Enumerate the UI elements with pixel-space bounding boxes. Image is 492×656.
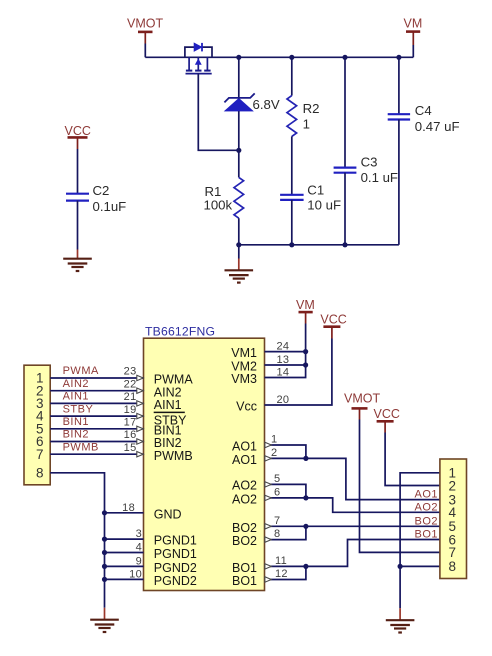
svg-text:C1: C1 <box>307 182 324 197</box>
svg-text:21: 21 <box>124 391 137 403</box>
svg-text:7: 7 <box>36 447 44 462</box>
wire gate to zener bottom node <box>198 74 239 151</box>
net VM terminal (above U1) <box>296 298 315 324</box>
pin arrows U1 right pins <box>265 442 271 582</box>
svg-text:1: 1 <box>303 116 310 131</box>
svg-text:0.47 uF: 0.47 uF <box>415 119 460 134</box>
svg-text:0.1uF: 0.1uF <box>93 199 127 214</box>
wire bottom rail <box>239 244 399 246</box>
svg-text:BO1: BO1 <box>232 574 257 588</box>
wire zener bottom <box>238 111 240 150</box>
wire GND J2 pin1 column <box>400 473 440 608</box>
svg-text:PGND2: PGND2 <box>154 561 197 575</box>
wire J1 pin6 to U1 pin16 (BIN2) <box>50 441 143 443</box>
wire GND column to U1 pin9 <box>105 565 144 567</box>
source/drain/body stubs <box>188 57 190 70</box>
svg-text:BIN1: BIN1 <box>63 416 89 428</box>
svg-text:BO2: BO2 <box>232 521 257 535</box>
capacitor C1 10 uF <box>280 195 304 200</box>
svg-text:10: 10 <box>129 568 142 580</box>
resistor R1 100k <box>234 177 244 218</box>
channel bars <box>186 70 192 72</box>
net VCC terminal (middle right) <box>374 407 400 432</box>
wire GND column to U1 pin18 <box>105 512 144 514</box>
svg-text:BIN2: BIN2 <box>63 429 89 441</box>
U1 left pin names <box>154 373 197 588</box>
svg-text:3: 3 <box>136 528 142 540</box>
resistor R2 1 <box>287 96 297 137</box>
svg-text:C2: C2 <box>93 183 110 198</box>
svg-text:4: 4 <box>449 505 457 520</box>
wire U1 pin7 (BO2) <box>265 525 306 527</box>
wire J1 pin3 to U1 pin21 (AIN1) <box>50 402 143 404</box>
svg-text:1: 1 <box>271 434 277 446</box>
svg-text:6.8V: 6.8V <box>253 97 280 112</box>
svg-text:VM: VM <box>404 17 423 31</box>
svg-text:100k: 100k <box>204 198 233 213</box>
svg-text:PWMB: PWMB <box>154 449 193 463</box>
capacitor C3 0.1 uF <box>334 168 357 173</box>
node zener/gate junction <box>236 148 241 153</box>
connector J2 (right header) <box>440 459 467 579</box>
wire VCC to J2 pin2 <box>385 433 440 486</box>
wire VCC to U1 pin20 <box>265 339 332 406</box>
wire J1 pin8 to GND column <box>50 473 104 608</box>
svg-text:AO1: AO1 <box>232 440 257 454</box>
wire VCC to C2 <box>77 149 79 194</box>
svg-text:VM1: VM1 <box>231 346 257 360</box>
svg-text:8: 8 <box>36 465 44 480</box>
wire U1 pin1 (AO1) <box>265 445 306 458</box>
node bottom rail junctions <box>236 242 241 247</box>
svg-text:12: 12 <box>275 568 288 580</box>
node GND column junctions <box>102 510 107 515</box>
net VMOT terminal (top left) <box>127 17 163 44</box>
svg-text:11: 11 <box>275 555 287 567</box>
transistor Q1 (P-MOSFET with body diode) <box>185 43 212 74</box>
svg-text:20: 20 <box>277 394 290 406</box>
svg-text:10 uF: 10 uF <box>307 198 341 213</box>
svg-text:BO1: BO1 <box>232 561 257 575</box>
node BO1 junction <box>303 564 308 569</box>
wire C1 to bottom rail <box>291 200 293 245</box>
svg-text:16: 16 <box>124 429 137 441</box>
wire rail to ground G2 <box>238 245 240 259</box>
svg-text:GND: GND <box>154 507 182 521</box>
body arrow <box>195 58 202 64</box>
svg-text:15: 15 <box>124 442 137 454</box>
svg-text:VMOT: VMOT <box>127 17 163 31</box>
svg-text:4: 4 <box>136 542 142 554</box>
wire U1 pin8 (BO2) <box>265 526 306 539</box>
svg-text:0.1 uF: 0.1 uF <box>361 170 398 185</box>
svg-text:R2: R2 <box>303 101 320 116</box>
net VMOT terminal (middle right) <box>344 391 380 419</box>
wire to ground G3 <box>104 608 106 620</box>
svg-text:5: 5 <box>274 473 280 485</box>
connector J1 (left header) <box>24 365 50 485</box>
svg-text:AO2: AO2 <box>232 493 257 507</box>
svg-text:PWMA: PWMA <box>63 365 99 377</box>
wire U1 pin24 (VM1) <box>265 351 306 353</box>
svg-text:AO2: AO2 <box>232 479 257 493</box>
svg-text:AO1: AO1 <box>414 489 438 501</box>
body diode loop <box>185 47 212 57</box>
svg-text:22: 22 <box>124 378 137 390</box>
svg-text:AIN1: AIN1 <box>154 398 182 412</box>
wire R2 to C1 <box>291 136 293 194</box>
svg-text:TB6612FNG: TB6612FNG <box>145 325 215 339</box>
U1 right pin names <box>231 346 257 588</box>
svg-text:7: 7 <box>274 515 280 527</box>
wire to ground G4 <box>399 608 401 620</box>
node VM junctions <box>303 349 308 354</box>
svg-text:2: 2 <box>449 478 457 493</box>
wire VM column down to U1 pin14 <box>265 324 306 378</box>
ground G3 <box>90 620 119 632</box>
wire C2 to ground G1 <box>77 201 79 250</box>
svg-text:AIN1: AIN1 <box>63 391 89 403</box>
svg-text:C4: C4 <box>415 103 432 118</box>
wire GND column to U1 pin10 <box>105 578 144 580</box>
svg-text:PWMB: PWMB <box>63 441 99 453</box>
wire top rail <box>145 56 413 58</box>
wire J2 pin8 <box>400 565 440 567</box>
svg-text:18: 18 <box>122 502 135 514</box>
wire J1 pin5 to U1 pin17 (BIN1) <box>50 428 143 430</box>
wire U1 pin11 (BO1) <box>265 565 306 567</box>
net VCC terminal (left) <box>65 124 91 149</box>
svg-text:AIN2: AIN2 <box>63 378 89 390</box>
node GND right junction <box>398 564 403 569</box>
svg-text:13: 13 <box>277 354 290 366</box>
svg-text:BO2: BO2 <box>232 534 257 548</box>
svg-text:C3: C3 <box>361 154 378 169</box>
wire U1 pin12 (BO1) <box>265 566 306 579</box>
svg-text:VM3: VM3 <box>231 372 257 386</box>
wire U1 pin13 (VM2) <box>265 364 306 366</box>
diode cathode bar <box>201 43 203 52</box>
wire J1 pin4 to U1 pin19 (STBY) <box>50 415 143 417</box>
svg-text:24: 24 <box>277 341 290 353</box>
gate line <box>186 73 212 75</box>
svg-text:19: 19 <box>124 404 137 416</box>
wire BO2 to J2 pin5 <box>306 525 440 527</box>
svg-text:23: 23 <box>124 366 137 378</box>
svg-text:STBY: STBY <box>63 403 94 415</box>
wire C3 to bottom rail <box>344 173 346 245</box>
wire C4 top <box>398 57 400 114</box>
svg-text:PGND1: PGND1 <box>154 547 197 561</box>
svg-text:VMOT: VMOT <box>344 391 380 405</box>
net VCC terminal (above U1 pin20) <box>320 312 346 338</box>
diode triangle <box>194 43 202 52</box>
wire node to R1 <box>238 150 240 177</box>
svg-text:Vcc: Vcc <box>236 400 257 414</box>
node BO2 junction <box>303 524 308 529</box>
svg-text:2: 2 <box>271 447 277 459</box>
svg-text:VCC: VCC <box>320 312 346 326</box>
ground G4 <box>386 620 415 632</box>
svg-text:7: 7 <box>449 545 457 560</box>
wire C3 top <box>344 57 346 167</box>
wire J1 pin1 to U1 pin23 (PWMA) <box>50 377 143 379</box>
wire R1 to bottom rail <box>238 218 240 245</box>
net VM terminal (top right) <box>404 17 423 45</box>
wire VMOT to J2 pin7 <box>360 420 440 553</box>
wire GND column to U1 pin3 <box>105 538 144 540</box>
pin arrows U1 left pins <box>137 375 143 457</box>
wire AO1 to J2 pin3 <box>306 458 440 499</box>
svg-text:VM: VM <box>296 298 315 312</box>
wire AO2 to J2 pin4 <box>306 498 440 512</box>
node AO2 junction <box>303 495 308 500</box>
node AO1 junction <box>303 456 308 461</box>
wire U1 pin6 (AO2) <box>265 497 306 499</box>
svg-text:9: 9 <box>136 555 142 567</box>
svg-text:PGND2: PGND2 <box>154 574 197 588</box>
ground G2 <box>225 270 254 282</box>
wire J1 pin2 to U1 pin22 (AIN2) <box>50 390 143 392</box>
wire C4 to bottom rail corner <box>398 120 400 245</box>
svg-text:14: 14 <box>277 367 290 379</box>
wire J1 pin7 to U1 pin15 (PWMB) <box>50 453 143 455</box>
svg-text:PGND1: PGND1 <box>154 534 197 548</box>
svg-text:6: 6 <box>274 486 280 498</box>
svg-text:AO2: AO2 <box>414 501 438 513</box>
wire GND column to U1 pin4 <box>105 552 144 554</box>
svg-text:17: 17 <box>124 417 137 429</box>
ground G1 <box>63 259 92 271</box>
wire U1 pin2 (AO1) <box>265 457 306 459</box>
svg-text:AO1: AO1 <box>232 453 257 467</box>
wire VMOT stub down to rail <box>144 44 146 58</box>
zener diode D1 6.8V <box>224 93 254 111</box>
node top rail junctions <box>236 55 241 60</box>
wire U1 pin5 (AO2) <box>265 484 306 498</box>
svg-text:BO2: BO2 <box>414 515 438 527</box>
svg-text:VCC: VCC <box>374 407 400 421</box>
svg-text:BO1: BO1 <box>414 529 438 541</box>
capacitor C2 0.1uF <box>66 194 89 201</box>
capacitor C4 0.47 uF <box>388 114 410 119</box>
svg-text:8: 8 <box>449 559 457 574</box>
wire zener top <box>238 57 240 98</box>
wire R2 top <box>291 57 293 95</box>
wire BO1 to J2 pin6 <box>306 540 440 567</box>
wire VM stub to rail <box>412 45 414 57</box>
svg-text:8: 8 <box>274 528 280 540</box>
